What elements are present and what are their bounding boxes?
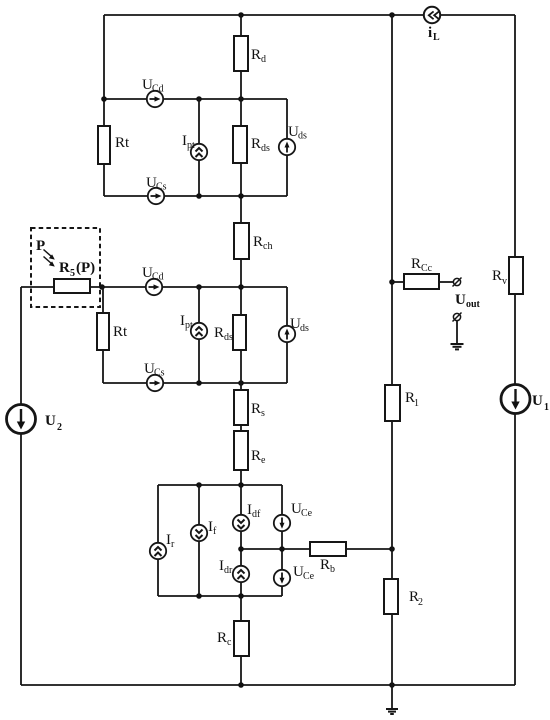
wire R5 to junction xyxy=(90,286,146,288)
wire stage1 left vertical upper xyxy=(103,15,105,126)
current sensor iL xyxy=(424,7,440,23)
svg-text:dr: dr xyxy=(224,565,233,576)
source Uds stage1 xyxy=(279,99,295,196)
wire Rds bottom stage1 xyxy=(240,163,242,223)
svg-text:Rt: Rt xyxy=(113,324,128,340)
svg-text:R: R xyxy=(251,401,261,417)
svg-text:v: v xyxy=(502,276,507,287)
wire stage1 left vertical lower xyxy=(103,164,105,196)
wire diode block bottom rail xyxy=(158,595,282,597)
svg-text:pt: pt xyxy=(187,140,195,151)
wire R5 row left xyxy=(21,286,54,288)
resistor RCc xyxy=(404,274,439,289)
svg-text:L: L xyxy=(433,32,440,43)
resistor Rds stage2 xyxy=(233,315,246,350)
source U1 xyxy=(501,385,530,414)
node (241,485) xyxy=(238,482,244,488)
ground Uout xyxy=(451,344,464,349)
svg-text:U: U xyxy=(45,413,56,429)
resistor Rt (stage1) xyxy=(98,126,110,164)
svg-text:d: d xyxy=(261,54,266,65)
svg-text:U: U xyxy=(455,292,466,308)
node (104,99) xyxy=(101,96,107,102)
node (241,685) xyxy=(238,682,244,688)
svg-text:ch: ch xyxy=(263,241,272,252)
current source Idf xyxy=(233,485,249,566)
wire terminal to ground xyxy=(456,321,458,343)
wire R2 to bottom rail xyxy=(391,614,393,685)
node (282,549) xyxy=(279,546,285,552)
resistor R5 xyxy=(54,279,90,293)
resistor Re xyxy=(234,431,248,470)
source UCd stage1 xyxy=(147,91,163,107)
wire Rd bottom to UCd row xyxy=(240,71,242,126)
svg-text:1: 1 xyxy=(414,398,419,409)
node (199,99) xyxy=(196,96,202,102)
node (102,287) xyxy=(99,284,105,290)
node (199,196) xyxy=(196,193,202,199)
svg-text:5: 5 xyxy=(70,268,75,279)
terminal Uout lower xyxy=(453,313,462,322)
wire UCd2 row xyxy=(162,286,287,288)
svg-text:ds: ds xyxy=(300,323,309,334)
wire Rc top xyxy=(240,596,242,621)
svg-text:i: i xyxy=(428,25,432,41)
node (241,196) xyxy=(238,193,244,199)
resistor Rb xyxy=(310,542,346,556)
svg-text:(P): (P) xyxy=(76,260,95,276)
svg-text:R: R xyxy=(411,256,421,272)
svg-text:R: R xyxy=(492,268,502,284)
current source If xyxy=(191,485,207,596)
svg-text:R: R xyxy=(251,136,261,152)
svg-text:R: R xyxy=(251,47,261,63)
resistor Rs xyxy=(234,390,248,425)
svg-text:c: c xyxy=(227,637,232,648)
svg-text:Ce: Ce xyxy=(301,508,313,519)
wire UCd row stage1 xyxy=(104,98,147,100)
source Uds stage2 xyxy=(279,287,295,383)
wire stage2 left vertical xyxy=(102,287,104,313)
svg-text:R: R xyxy=(217,630,227,646)
node (241,383) xyxy=(238,380,244,386)
wire bottom rail xyxy=(21,684,515,686)
node (241,549) xyxy=(238,546,244,552)
resistor Rc xyxy=(234,621,249,656)
wire Rv to U1 xyxy=(514,294,516,385)
light arrow 2 xyxy=(44,257,55,267)
wire top rail right of iL xyxy=(440,14,515,16)
svg-text:R: R xyxy=(59,260,70,276)
svg-text:Cs: Cs xyxy=(156,182,167,193)
resistor Rch xyxy=(234,223,249,259)
wire Re to diode block xyxy=(240,470,242,485)
wire Rch bottom xyxy=(240,259,242,315)
svg-text:1: 1 xyxy=(544,402,549,413)
source UCs stage2 xyxy=(147,375,163,391)
node (199,485) xyxy=(196,482,202,488)
source U2 xyxy=(7,405,36,434)
svg-text:P: P xyxy=(36,238,45,254)
resistor Rt (stage2) xyxy=(97,313,109,350)
node (199,596) xyxy=(196,593,202,599)
current source Ipt stage2 xyxy=(191,287,207,383)
photoresistor dashed box xyxy=(31,228,100,307)
svg-text:Cc: Cc xyxy=(421,263,433,274)
node junction top R1 xyxy=(389,12,395,18)
svg-text:Ce: Ce xyxy=(303,571,315,582)
node (392,549) xyxy=(389,546,395,552)
resistor Rv xyxy=(509,257,523,294)
svg-text:U: U xyxy=(532,393,543,409)
wire UCs row stage1 xyxy=(104,195,148,197)
node (241,99) xyxy=(238,96,244,102)
wire left vertical upper xyxy=(20,287,22,405)
svg-text:pt: pt xyxy=(185,320,193,331)
wire RCc right xyxy=(439,281,453,283)
wire Rb to R1 branch xyxy=(346,548,392,550)
wire ground stem xyxy=(391,685,393,708)
resistor R1 xyxy=(385,385,400,421)
source UCe top xyxy=(274,485,290,570)
wire Rd top xyxy=(240,15,242,36)
svg-text:Cs: Cs xyxy=(154,368,165,379)
source UCd stage2 xyxy=(146,279,162,295)
source UCe bottom xyxy=(274,570,290,596)
wire mid row to Rb xyxy=(241,548,310,550)
resistor Rd xyxy=(234,36,248,71)
wire U1 to bottom rail xyxy=(514,414,516,686)
current source Ipt stage1 xyxy=(191,99,207,196)
source UCs stage1 xyxy=(148,188,164,204)
wire Rs-Re xyxy=(240,425,242,431)
svg-text:Cd: Cd xyxy=(152,272,164,283)
svg-text:f: f xyxy=(213,526,217,537)
node junction top Rd xyxy=(238,12,244,18)
svg-text:2: 2 xyxy=(418,597,423,608)
node (392,282) xyxy=(389,279,395,285)
node (241,596) xyxy=(238,593,244,599)
svg-text:ds: ds xyxy=(298,131,307,142)
light arrow 1 xyxy=(44,250,55,260)
current source Ir xyxy=(150,485,166,596)
resistor R2 xyxy=(384,579,398,614)
svg-text:r: r xyxy=(171,539,175,550)
node (241,287) xyxy=(238,284,244,290)
svg-text:R: R xyxy=(251,448,261,464)
svg-text:R: R xyxy=(253,234,263,250)
svg-text:b: b xyxy=(330,564,335,575)
wire RCc left xyxy=(392,281,404,283)
svg-text:ds: ds xyxy=(224,332,233,343)
svg-text:s: s xyxy=(261,408,265,419)
wire stage2 to Rs xyxy=(240,350,242,390)
resistor Rds stage1 xyxy=(233,126,247,163)
terminal Uout upper xyxy=(453,278,462,287)
svg-text:Cd: Cd xyxy=(152,84,164,95)
wire R1R2 vertical from top xyxy=(391,15,393,385)
svg-text:e: e xyxy=(261,455,266,466)
node (199,287) xyxy=(196,284,202,290)
wire right vertical upper xyxy=(514,15,516,257)
svg-text:df: df xyxy=(252,509,261,520)
wire UCs2 row xyxy=(103,382,147,384)
wire diode block top rail xyxy=(158,484,282,486)
current source Idr xyxy=(233,566,249,596)
wire Rc bottom xyxy=(240,656,242,685)
ground main xyxy=(386,709,398,714)
svg-text:R: R xyxy=(320,557,330,573)
wire top rail xyxy=(104,14,424,16)
svg-text:R: R xyxy=(214,325,224,341)
wire R1 to R2 xyxy=(391,421,393,579)
node (199,383) xyxy=(196,380,202,386)
svg-text:out: out xyxy=(466,299,481,310)
svg-text:ds: ds xyxy=(261,143,270,154)
node (392,685) xyxy=(389,682,395,688)
wire left vertical lower xyxy=(20,434,22,686)
svg-text:Rt: Rt xyxy=(115,135,130,151)
svg-text:2: 2 xyxy=(57,422,62,433)
